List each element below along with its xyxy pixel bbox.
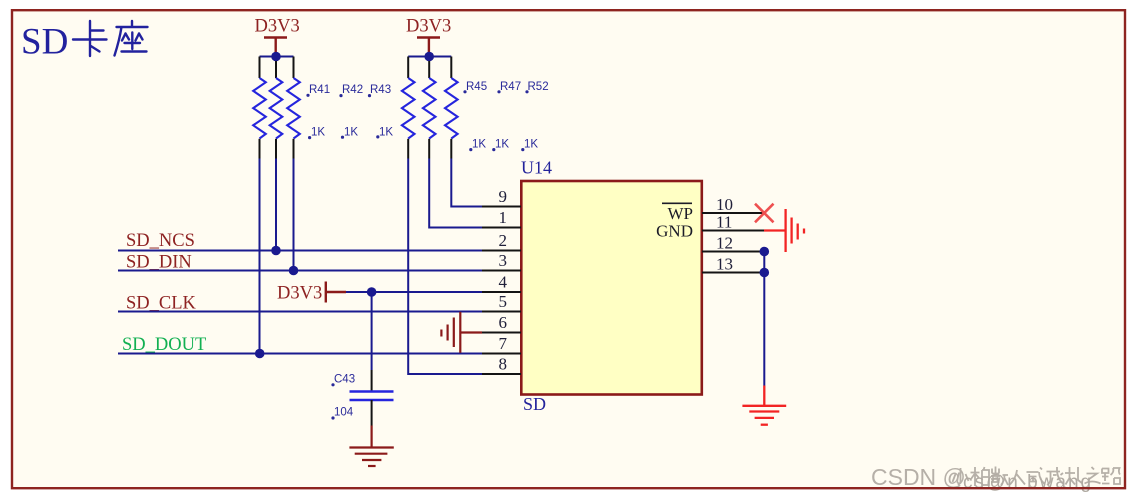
小 — [953, 468, 969, 485]
wire: R41 to SD_DOUT — [259, 159, 261, 354]
svg-text:2: 2 — [499, 231, 508, 250]
svg-text:D3V3: D3V3 — [406, 17, 451, 37]
svg-text:CSDN @: CSDN @ — [871, 464, 966, 490]
svg-text:R42: R42 — [342, 84, 363, 96]
嵌 — [991, 467, 1008, 486]
柏 — [971, 467, 990, 486]
wire: junction down to C43 — [371, 292, 373, 370]
svg-text:10: 10 — [716, 195, 733, 214]
wire SD_DOUT — [118, 353, 482, 355]
svg-text:SD: SD — [523, 394, 546, 414]
svg-text:SD: SD — [21, 22, 68, 63]
wire: D3V3 to pin 4 — [346, 291, 482, 293]
svg-text:3: 3 — [499, 251, 508, 270]
pin 8 — [482, 355, 521, 374]
svg-text:cs@n bwang: cs@n bwang — [963, 472, 1093, 493]
svg-text:11: 11 — [716, 213, 732, 232]
svg-text:1K: 1K — [495, 139, 509, 151]
svg-text:R47: R47 — [500, 81, 521, 93]
svg-text:R43: R43 — [370, 84, 391, 96]
pin 3 — [482, 251, 521, 270]
pin name WP (overline) — [662, 203, 693, 223]
node: pin 12 junction — [760, 247, 770, 257]
pin 10 — [702, 195, 764, 214]
svg-text:D3V3: D3V3 — [277, 284, 322, 304]
svg-text:13: 13 — [716, 255, 733, 274]
svg-text:D3V3: D3V3 — [255, 17, 300, 37]
pin 5 — [482, 292, 521, 311]
IC U14 body — [521, 181, 702, 395]
power port D3V3 #2 — [406, 17, 451, 57]
node: SD_DOUT / R41 junction — [255, 349, 265, 359]
wire: R41 bottom stub — [259, 139, 261, 159]
pin 12 — [702, 234, 764, 253]
resistor R45 — [402, 78, 415, 139]
wire: R43 bottom stub — [293, 139, 295, 159]
node: pin 13 junction — [760, 268, 770, 278]
wire SD_NCS — [118, 250, 482, 252]
node: D3V3 / C43 junction — [367, 287, 377, 297]
resistor R47 — [423, 78, 436, 139]
svg-text:9: 9 — [499, 187, 508, 206]
label C43 — [331, 374, 355, 387]
value 1K (R45) — [469, 139, 486, 152]
wire: R45 to pin 8 — [408, 159, 482, 375]
式 — [1027, 468, 1046, 484]
成 — [1047, 467, 1065, 485]
入 — [1010, 470, 1025, 485]
wire: R42 bottom stub — [275, 139, 277, 159]
svg-text:R41: R41 — [309, 84, 330, 96]
pin 9 — [482, 187, 521, 206]
svg-text:U14: U14 — [521, 158, 552, 178]
label R41 — [306, 84, 330, 97]
title SD卡座 — [21, 21, 148, 63]
resistor R42 — [270, 78, 283, 139]
label R43 — [368, 84, 391, 97]
wire: R43 to SD_DIN — [293, 159, 295, 271]
svg-text:1K: 1K — [344, 127, 358, 139]
wire SD_DIN — [118, 270, 482, 272]
长 — [1065, 467, 1083, 485]
svg-text:104: 104 — [334, 407, 354, 419]
pin 13 — [702, 255, 764, 274]
label R45 — [463, 81, 487, 93]
value 1K (R47) — [492, 139, 509, 152]
svg-text:1K: 1K — [379, 127, 393, 139]
svg-text:1: 1 — [499, 208, 508, 227]
power port D3V3 #3 — [277, 282, 346, 304]
value 104 — [331, 407, 353, 420]
pin 4 — [482, 273, 521, 292]
wire SD_CLK — [118, 311, 482, 313]
ground: C43 earth — [349, 426, 393, 467]
svg-text:C43: C43 — [334, 374, 355, 386]
svg-text:8: 8 — [499, 355, 508, 374]
wire: pins 12/13 down to ground — [763, 252, 765, 386]
svg-text:5: 5 — [499, 292, 508, 311]
wire: R52 to pin 9 — [451, 159, 482, 207]
resistor R52 — [445, 78, 458, 139]
wire: R47 to pin 1 — [429, 159, 482, 228]
label R47 — [497, 81, 521, 93]
wire: rail 2 top bar — [408, 56, 451, 58]
node: D3V3 rail 1 junction — [271, 52, 281, 62]
pin 11 — [702, 213, 764, 232]
wire: R47 bottom stub — [428, 139, 430, 159]
value 1K (R43) — [376, 127, 393, 139]
node: D3V3 rail 2 junction — [424, 52, 434, 62]
value 1K (R41) — [308, 127, 325, 140]
wire: C43 bottom lead — [371, 400, 373, 426]
svg-text:1K: 1K — [472, 139, 486, 151]
wire: black drops to R45 R47 R52 — [408, 57, 451, 79]
wire: R52 bottom stub — [450, 139, 452, 159]
resistor R43 — [287, 78, 300, 139]
capacitor C43 — [350, 392, 394, 401]
no-connect X on pin 10 — [755, 204, 774, 223]
node: SD_NCS / R42 junction — [271, 246, 281, 256]
svg-text:WP: WP — [668, 204, 694, 223]
wire: rail 1 top bar — [260, 56, 294, 58]
value 1K (R52) — [521, 139, 538, 152]
之 — [1085, 467, 1101, 484]
svg-text:1K: 1K — [311, 127, 325, 139]
wire: R42 to SD_NCS — [275, 159, 277, 251]
pin 7 — [482, 334, 521, 353]
路 — [1102, 468, 1120, 484]
svg-text:SD_DOUT: SD_DOUT — [122, 335, 206, 355]
svg-text:4: 4 — [499, 273, 508, 292]
value 1K (R42) — [341, 127, 358, 139]
svg-text:R45: R45 — [466, 81, 487, 93]
pin 1 — [482, 208, 521, 227]
wire: black drops to R41 R42 R43 — [260, 57, 294, 79]
svg-text:12: 12 — [716, 234, 733, 253]
ground: pin 6 earth (dark red) — [441, 312, 482, 353]
node: SD_DIN / R43 junction — [289, 266, 299, 276]
ground: bottom right earth (bright red) — [742, 386, 786, 425]
watermark CSDN — [871, 464, 1120, 490]
pin 2 — [482, 231, 521, 250]
pin 6 — [482, 313, 521, 332]
label R52 — [525, 81, 548, 93]
svg-text:7: 7 — [499, 334, 508, 353]
svg-text:1K: 1K — [524, 139, 538, 151]
svg-text:R52: R52 — [528, 81, 549, 93]
svg-text:SD_NCS: SD_NCS — [126, 231, 195, 251]
power port D3V3 #1 — [255, 17, 300, 57]
svg-text:6: 6 — [499, 313, 508, 332]
label R42 — [339, 84, 363, 97]
ground: pin 11 earth (bright red) — [764, 209, 804, 252]
wire: R45 bottom stub — [407, 139, 409, 159]
svg-text:GND: GND — [656, 222, 693, 241]
resistor R41 — [253, 78, 266, 139]
